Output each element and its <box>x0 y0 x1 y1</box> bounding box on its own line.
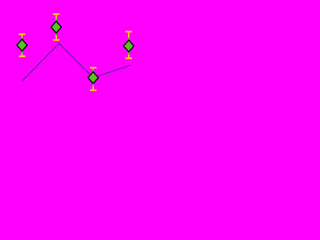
marker A diamond <box>17 39 27 51</box>
background <box>0 0 154 110</box>
error bar B <box>53 14 60 40</box>
wire blue data line <box>22 43 131 81</box>
marker C diamond <box>88 72 98 84</box>
error bar A <box>19 34 26 56</box>
error bar C <box>90 68 97 91</box>
marker B diamond <box>51 21 61 33</box>
error bar D <box>125 32 132 59</box>
marker D diamond <box>124 40 134 52</box>
